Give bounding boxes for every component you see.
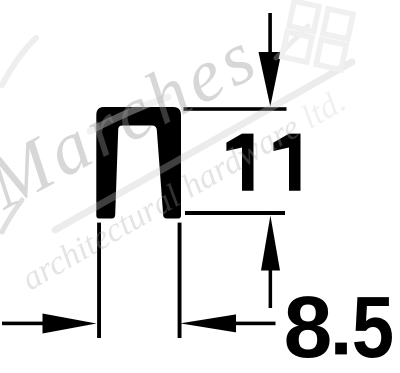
svg-text:5: 5 bbox=[352, 279, 394, 373]
svg-text:8: 8 bbox=[284, 278, 333, 373]
